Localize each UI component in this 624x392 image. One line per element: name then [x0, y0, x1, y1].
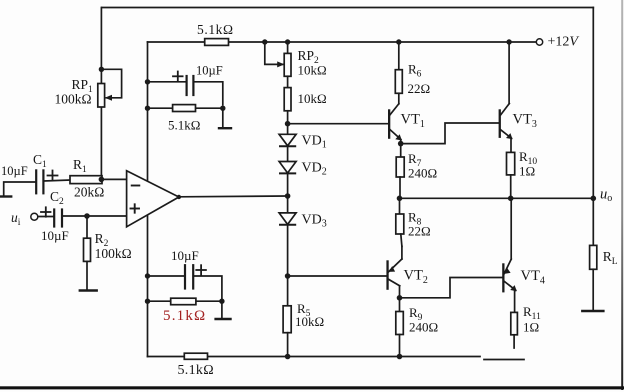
label R1 20k [73, 157, 104, 200]
wire: bias reference vertical line (behind op-amp) [147, 42, 149, 357]
ground C1 [0, 182, 36, 197]
label +12V [548, 35, 580, 50]
label VD2 [302, 161, 327, 178]
node: VT1 base junction [285, 121, 388, 127]
ground lower network [216, 301, 231, 319]
svg-text:10µF: 10µF [41, 228, 69, 243]
label VD1 [302, 134, 327, 151]
svg-text:uo: uo [600, 187, 612, 205]
potentiometer RP1 [98, 67, 122, 107]
svg-text:10kΩ: 10kΩ [295, 314, 324, 329]
terminal ui [31, 213, 54, 220]
resistor R5 [283, 276, 291, 357]
resistor R6 [395, 39, 402, 104]
label 5.1k top [197, 22, 234, 37]
wire: right feedback drop to output node [592, 8, 594, 199]
label R2 100k [95, 231, 132, 261]
svg-text:RL: RL [603, 249, 618, 267]
svg-text:R6: R6 [408, 62, 422, 80]
label 10k bias [298, 91, 327, 106]
label R9 240 [409, 305, 438, 335]
svg-text:22Ω: 22Ω [408, 81, 431, 96]
svg-text:10µF: 10µF [1, 164, 28, 178]
node: VT2 collector junction [397, 295, 403, 301]
label RP2 10k [298, 48, 327, 78]
node: VT1 emitter junction [398, 141, 404, 147]
capacitor 10uF upper feedback [145, 72, 223, 105]
label R11 1ohm [523, 304, 541, 335]
svg-text:1Ω: 1Ω [523, 320, 539, 335]
resistor RL with ground [582, 198, 603, 311]
wire: VT2 collector to VT4 base [400, 278, 503, 298]
svg-text:240Ω: 240Ω [408, 166, 437, 181]
svg-text:5.1kΩ: 5.1kΩ [163, 308, 206, 324]
svg-text:22Ω: 22Ω [408, 224, 431, 239]
label RL [603, 249, 618, 267]
wire: output rail uo [397, 196, 596, 202]
svg-text:VD1: VD1 [302, 134, 327, 151]
transistor VT3 [499, 39, 513, 152]
capacitor 10uF lower feedback [145, 265, 222, 298]
svg-text:100kΩ: 100kΩ [95, 246, 132, 261]
transistor VT1 [388, 104, 402, 144]
wire: bottom ground rail [148, 354, 525, 360]
label VD3 [302, 213, 327, 230]
svg-text:20kΩ: 20kΩ [74, 185, 104, 200]
svg-text:10µF: 10µF [196, 64, 223, 78]
wire: RP1 branch vertical from top rail to inverting node [100, 8, 102, 180]
capacitor C1 [36, 170, 70, 193]
node: op-amp output junction on diode chain [285, 173, 291, 213]
svg-text:C2: C2 [50, 189, 64, 207]
node: inverting input junction [99, 177, 127, 183]
potentiometer RP2 [262, 39, 291, 87]
resistor 5.1k lower parallel [145, 298, 225, 305]
svg-text:10µF: 10µF [171, 248, 199, 263]
label R6 22 [408, 62, 431, 97]
diode VD1 [279, 124, 296, 147]
label 5.1k lower red [163, 308, 206, 324]
label 10uF lower [171, 248, 199, 263]
wire: op-amp output to diode chain node [179, 195, 288, 198]
label 5.1k upper parallel [168, 118, 200, 133]
resistor R9 [396, 298, 404, 357]
svg-text:VT3: VT3 [513, 112, 537, 131]
svg-text:5.1kΩ: 5.1kΩ [168, 118, 200, 133]
svg-text:VD3: VD3 [302, 213, 327, 230]
label R10 1ohm [519, 149, 537, 179]
resistor R10 [507, 152, 515, 198]
op-amp U1 [127, 171, 181, 227]
border: right scan edge [621, 0, 623, 390]
label R5 10k [295, 301, 324, 329]
label C1 10uF [1, 152, 47, 178]
resistor R7 [396, 144, 404, 199]
resistor R1 [70, 176, 102, 184]
svg-text:10kΩ: 10kΩ [298, 63, 327, 78]
label R7 240 [408, 151, 437, 181]
resistor R8 [396, 198, 404, 246]
svg-text:VD2: VD2 [302, 161, 327, 178]
label uo [600, 187, 612, 205]
resistor R11 [511, 312, 518, 348]
wire: VT1 emitter to VT3 base [401, 123, 499, 144]
ground upper network [219, 108, 231, 128]
svg-text:5.1kΩ: 5.1kΩ [197, 22, 234, 37]
svg-text:240Ω: 240Ω [409, 320, 438, 335]
border: bottom scan edge [0, 386, 624, 389]
resistor 5.1k bottom rail [184, 353, 207, 359]
label VT4 [521, 268, 545, 287]
resistor 10k bias [284, 88, 291, 124]
svg-text:+12V: +12V [548, 35, 580, 50]
label VT2 [404, 268, 428, 287]
terminal +12V [536, 39, 542, 45]
label C2 10uF [41, 189, 69, 243]
svg-text:100kΩ: 100kΩ [55, 92, 92, 107]
label VT3 [513, 112, 537, 131]
label ui [11, 210, 21, 228]
diode VD3 [279, 213, 296, 276]
transistor VT2 [386, 246, 402, 297]
svg-text:1Ω: 1Ω [519, 164, 535, 179]
svg-text:ui: ui [11, 210, 21, 228]
capacitor C2 [41, 207, 127, 226]
svg-text:VT2: VT2 [404, 268, 428, 287]
svg-text:VT4: VT4 [521, 268, 545, 287]
resistor 5.1k upper parallel [145, 105, 226, 112]
svg-text:10kΩ: 10kΩ [298, 91, 327, 106]
diode VD2 [279, 146, 296, 173]
transistor VT4 [502, 198, 517, 312]
svg-text:5.1kΩ: 5.1kΩ [178, 363, 214, 378]
label RP1 100k [55, 77, 94, 107]
label 5.1k bottom [178, 363, 214, 378]
svg-text:R1: R1 [73, 157, 87, 175]
svg-text:VT1: VT1 [401, 112, 425, 131]
label 10uF upper [196, 64, 223, 78]
resistor 5.1k on supply rail [205, 39, 229, 46]
node: VT2 base junction [285, 273, 387, 279]
label R8 22 [408, 210, 431, 239]
wire: +12V supply rail [148, 41, 537, 43]
wire: top feedback rail from output to RP1 [102, 7, 593, 9]
resistor R2 with ground [80, 213, 97, 290]
label VT1 [401, 112, 425, 131]
svg-text:C1: C1 [33, 152, 47, 170]
